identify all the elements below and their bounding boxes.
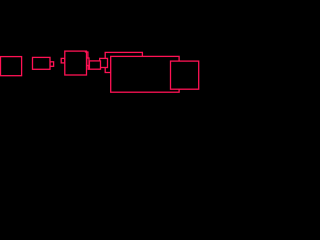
module block C (right square): [171, 61, 199, 89]
module block T (back rectangle): [105, 52, 142, 72]
component P1 pin body: [87, 58, 89, 66]
component U2 body: [65, 51, 87, 75]
component J1 body: [33, 57, 51, 69]
wire hook at U2 top-right: [85, 52, 88, 58]
component J1 pin tab: [50, 62, 54, 67]
component J2 body: [89, 61, 100, 69]
wire stub below P1: [88, 66, 89, 70]
component J3 body: [100, 58, 108, 67]
component U1 body: [1, 57, 22, 76]
component U2 left pin tab: [61, 58, 65, 63]
module block A (large rectangle): [111, 56, 179, 92]
